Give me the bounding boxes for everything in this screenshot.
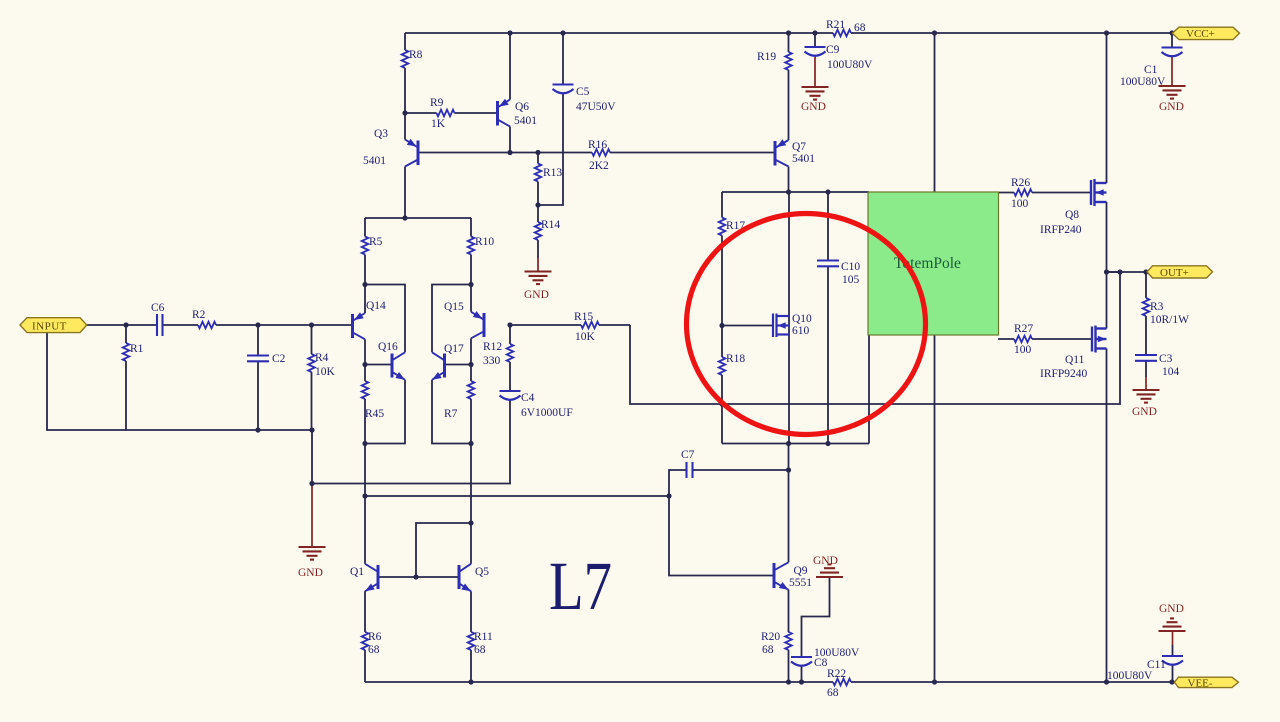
svg-text:68: 68 <box>762 644 774 656</box>
wire input row R2 to Q14 <box>216 324 353 326</box>
transistor Q8 arrow <box>1096 189 1104 195</box>
port OUT+ flag <box>1147 266 1213 279</box>
svg-text:Q7: Q7 <box>792 141 806 153</box>
resistor R1 <box>123 343 130 361</box>
junction dot R12 top <box>507 322 512 327</box>
svg-text:GND: GND <box>298 567 323 579</box>
capacitor C2 <box>247 356 269 362</box>
wire bottom rail left of R22 <box>365 681 833 683</box>
wire right column to Q5 <box>470 444 472 564</box>
svg-text:100: 100 <box>1014 344 1032 356</box>
svg-text:104: 104 <box>1162 366 1180 378</box>
junction dots input bottom rail <box>255 427 260 432</box>
wire R1 chain <box>125 325 127 430</box>
svg-text:5401: 5401 <box>514 115 537 127</box>
transistor Q1 arrow <box>363 583 375 594</box>
capacitor C3 <box>1135 355 1157 361</box>
wire top rail right of R21 <box>851 32 1173 34</box>
wire Q5 diode link <box>416 523 471 577</box>
ground below C1 <box>1159 86 1186 99</box>
svg-text:VEE-: VEE- <box>1188 677 1213 689</box>
svg-text:IRFP240: IRFP240 <box>1040 224 1082 236</box>
svg-text:C6: C6 <box>151 302 165 314</box>
resistor R22 <box>833 679 851 686</box>
wire Q1 Q5 base row <box>378 576 459 578</box>
resistor R27 <box>1014 336 1032 343</box>
wire Q9 emitter to R20 <box>788 590 790 682</box>
wire Q3 collector vertical <box>404 167 406 219</box>
svg-text:68: 68 <box>368 644 380 656</box>
resistor R7 <box>468 381 475 399</box>
svg-text:100U80V: 100U80V <box>1120 76 1166 88</box>
svg-text:5401: 5401 <box>792 153 815 165</box>
resistor R4 <box>308 354 315 372</box>
junction dots y152 rail <box>507 150 512 155</box>
wire Q1 emitter to R6 <box>364 591 366 682</box>
wire OUT node link <box>1107 271 1121 273</box>
resistor R14 <box>535 222 542 240</box>
svg-text:R3: R3 <box>1150 301 1164 313</box>
svg-text:R4: R4 <box>315 352 329 364</box>
resistor R10 <box>468 237 475 255</box>
ground below R14 <box>525 272 552 285</box>
svg-text:Q14: Q14 <box>366 300 386 312</box>
transistor Q14 <box>353 313 366 339</box>
wire R10 chain <box>470 218 472 285</box>
power VEE- flag <box>1174 677 1238 689</box>
svg-text:R21: R21 <box>826 19 845 31</box>
svg-text:VCC+: VCC+ <box>1186 28 1215 40</box>
svg-text:Q9: Q9 <box>794 565 808 577</box>
svg-text:GND: GND <box>524 289 549 301</box>
resistor R13 <box>535 164 542 182</box>
wire Q3 emitter vertical <box>404 113 406 140</box>
svg-text:5551: 5551 <box>789 577 812 589</box>
svg-text:1K: 1K <box>431 118 446 130</box>
svg-text:GND: GND <box>1159 101 1184 113</box>
junction dots box left edge <box>719 323 724 328</box>
capacitor C4 <box>500 391 521 400</box>
svg-text:R1: R1 <box>130 343 144 355</box>
wire C1 stem top <box>1171 33 1173 48</box>
wire R26 row <box>998 192 1091 194</box>
svg-text:Q3: Q3 <box>374 128 388 140</box>
capacitor C1 <box>1162 48 1183 57</box>
wire R9 row <box>405 112 498 114</box>
wire R16 to Q7 base <box>610 152 775 154</box>
wire totem box left chain R17 R18 <box>721 192 723 444</box>
junction dot R9 node <box>402 110 407 115</box>
wire Q6 collector vertical <box>509 127 511 153</box>
capacitor C10 <box>817 261 839 267</box>
wire maroon stem below C9 <box>814 55 816 87</box>
wire totem box bottom edge <box>722 443 869 445</box>
wire totem box top edge <box>722 191 869 193</box>
junction dot Q1 Q5 base <box>413 574 418 579</box>
wire C7 left loop <box>669 470 774 576</box>
svg-text:47U50V: 47U50V <box>576 101 616 113</box>
wire Q14 emitter link <box>365 285 405 353</box>
junction dots block bottom <box>362 441 367 446</box>
wire Q11 drain vertical from OUT <box>1106 272 1108 329</box>
svg-text:INPUT: INPUT <box>32 321 67 333</box>
ground above C11 inverted <box>1159 618 1186 631</box>
svg-text:610: 610 <box>792 325 810 337</box>
junction dot C7 node left <box>666 493 671 498</box>
wire Q15 collector to Q17 base node <box>470 338 472 364</box>
svg-text:Q11: Q11 <box>1065 354 1085 366</box>
resistor R19 <box>785 52 792 70</box>
svg-text:100: 100 <box>1011 198 1029 210</box>
svg-text:C4: C4 <box>521 392 535 404</box>
capacitor C6 <box>157 314 163 336</box>
svg-text:100U80V: 100U80V <box>827 59 873 71</box>
wire Q7 collector vertical <box>788 167 790 193</box>
transistor Q1 <box>365 564 378 592</box>
transistor Q8 mosfet <box>1091 179 1107 206</box>
wire OUT row <box>1107 271 1149 273</box>
svg-text:Q15: Q15 <box>444 301 464 313</box>
resistor R17 <box>719 218 726 236</box>
svg-text:R13: R13 <box>543 167 562 179</box>
junction dots emitter nodes <box>362 282 367 287</box>
transistor Q15 arrow <box>473 311 485 322</box>
svg-text:100U80V: 100U80V <box>1107 670 1153 682</box>
wire input flag drop <box>47 333 312 431</box>
wire Q8 source vertical to OUT <box>1106 202 1108 272</box>
wire R7 chain <box>470 365 472 444</box>
ground below C3 <box>1133 390 1160 403</box>
wire R5 chain <box>364 218 366 285</box>
wire bottom rail right of R22 <box>851 681 1175 683</box>
transistor Q11 mosfet <box>1092 326 1107 353</box>
svg-text:2K2: 2K2 <box>589 160 609 172</box>
svg-text:R11: R11 <box>474 631 493 643</box>
wire R19 chain <box>788 33 790 140</box>
wire C2 stem <box>257 325 259 430</box>
wire maroon stem below C3 <box>1145 377 1147 390</box>
junction dots totem box bottom <box>786 441 791 446</box>
resistor R21 <box>833 30 851 37</box>
svg-text:R27: R27 <box>1014 323 1033 335</box>
wire top rail left of R21 <box>405 32 833 34</box>
svg-text:R15: R15 <box>574 311 593 323</box>
transistor Q11 arrow <box>1098 336 1106 342</box>
svg-text:Q17: Q17 <box>444 343 464 355</box>
resistor R5 <box>362 237 369 255</box>
svg-text:C7: C7 <box>681 449 695 461</box>
wire Q15 emitter link <box>432 285 471 353</box>
wire C5 stem top <box>562 33 564 85</box>
svg-text:C10: C10 <box>841 261 860 273</box>
svg-text:C8: C8 <box>814 657 828 669</box>
resistor R9 <box>437 110 455 117</box>
junction dot feedback tap <box>362 493 367 498</box>
port INPUT flag <box>20 318 87 333</box>
wire maroon stem below R14 <box>537 258 539 272</box>
svg-text:R20: R20 <box>761 631 780 643</box>
capacitor C8 <box>791 657 812 666</box>
svg-text:L7: L7 <box>549 548 612 624</box>
wire base rail y152 Q3 to R16 <box>418 152 592 154</box>
transistor Q10 mosfet <box>773 314 789 338</box>
wire C7 right <box>693 469 789 471</box>
resistor R26 <box>1014 189 1032 196</box>
wire Q14 collector to Q16 base node <box>364 339 366 364</box>
svg-text:R6: R6 <box>368 631 382 643</box>
svg-text:10K: 10K <box>315 366 336 378</box>
wire Q17 emitter drop <box>432 380 471 444</box>
transistor Q9 arrow <box>779 582 791 593</box>
wire Q5 emitter to R11 <box>470 591 472 682</box>
svg-text:R45: R45 <box>365 408 384 420</box>
svg-text:Q16: Q16 <box>378 341 398 353</box>
svg-text:R2: R2 <box>192 309 206 321</box>
junction dots OUT row <box>1104 269 1109 274</box>
wire left column to Q1 <box>364 444 366 564</box>
wire Q11 source vertical to VEE rail <box>1106 349 1108 683</box>
transistor Q3 <box>405 140 418 167</box>
junction dot block feed <box>402 215 407 220</box>
wire Q16 emitter drop <box>365 380 405 444</box>
wire R14 top lead <box>537 205 539 222</box>
wire C3 stem bottom <box>1145 362 1147 378</box>
svg-text:10K: 10K <box>575 331 596 343</box>
wire C11 stem <box>1172 645 1174 682</box>
junction dot gnd tap x312 <box>309 481 314 486</box>
transistor Q5 <box>459 564 471 592</box>
svg-text:C5: C5 <box>576 86 590 98</box>
capacitor C5 <box>553 85 574 94</box>
svg-text:10R/1W: 10R/1W <box>1150 314 1189 326</box>
wire maroon stem gnd x312 <box>311 484 313 547</box>
resistor R12 <box>507 344 514 362</box>
svg-text:C9: C9 <box>826 44 840 56</box>
wire R8 chain vertical <box>404 33 406 113</box>
svg-text:105: 105 <box>842 274 860 286</box>
svg-text:C3: C3 <box>1159 353 1173 365</box>
transistor Q5 arrow <box>461 583 473 594</box>
wire mid vertical x934 <box>934 33 936 682</box>
resistor R3 <box>1143 298 1150 316</box>
transistor Q6 <box>498 100 511 127</box>
svg-text:R14: R14 <box>541 219 560 231</box>
ground x312 input network <box>299 547 326 560</box>
transistor Q9 <box>774 562 789 590</box>
capacitor C9 <box>805 47 826 56</box>
wire C8 stem top run <box>802 577 830 657</box>
wire C8 stem bottom <box>801 665 803 682</box>
svg-text:R8: R8 <box>409 49 423 61</box>
junction dots input row <box>123 322 128 327</box>
wire R4 chain <box>311 325 313 430</box>
svg-text:R10: R10 <box>475 236 494 248</box>
wire C10 chain <box>827 192 829 444</box>
svg-text:OUT+: OUT+ <box>1160 267 1189 279</box>
junction dot C7 right <box>786 467 791 472</box>
wire Q17 base <box>445 364 472 366</box>
resistor R2 <box>198 322 216 329</box>
resistor R11 <box>468 632 475 650</box>
wire feedback tap row y496 <box>365 495 669 497</box>
svg-text:R19: R19 <box>757 51 776 63</box>
wire R45 chain <box>364 365 366 444</box>
svg-text:68: 68 <box>854 22 866 34</box>
svg-text:68: 68 <box>474 644 486 656</box>
svg-text:R12: R12 <box>483 341 502 353</box>
resistor R18 <box>719 357 726 375</box>
wire R27 row <box>998 338 1092 340</box>
wire ground drop x312 <box>311 430 313 484</box>
svg-text:R18: R18 <box>726 353 745 365</box>
svg-text:Q8: Q8 <box>1065 209 1079 221</box>
totem pole green box <box>868 192 999 335</box>
transistor Q7 arrow <box>775 139 787 150</box>
transistor Q17 <box>432 352 445 380</box>
wire output return long line <box>630 272 1120 404</box>
svg-text:R5: R5 <box>369 236 383 248</box>
power VCC+ flag <box>1172 27 1239 40</box>
annotation red circle <box>687 214 926 435</box>
ground below C9 <box>802 87 829 100</box>
transistor Q3 arrow <box>407 139 419 150</box>
junction dots top rail <box>507 30 512 35</box>
svg-text:Q6: Q6 <box>515 101 529 113</box>
wire Q6 emitter vertical <box>509 33 511 100</box>
svg-text:Q10: Q10 <box>792 313 812 325</box>
capacitor C7 <box>687 462 693 478</box>
wire C5 stem bottom to R13 node <box>538 94 563 206</box>
ground above C8 inverted <box>816 564 843 577</box>
wire mid block top rail <box>365 217 471 219</box>
resistor R15 <box>581 322 599 329</box>
svg-text:GND: GND <box>813 555 838 567</box>
junction dot R13 bottom <box>535 202 540 207</box>
wire Q16 base <box>365 364 392 366</box>
svg-text:GND: GND <box>801 101 826 113</box>
svg-text:330: 330 <box>483 355 501 367</box>
wire Q10 gate row <box>722 325 773 327</box>
transistor Q6 arrow <box>497 99 509 110</box>
wire C9 stem top <box>814 33 816 47</box>
wire maroon stem gnd above C11 <box>1172 631 1174 645</box>
junction dots totem box top <box>786 189 791 194</box>
transistor Q14 arrow <box>352 312 364 323</box>
transistor Q16 <box>392 352 405 380</box>
resistor R20 <box>785 632 792 650</box>
resistor R8 <box>402 50 409 68</box>
svg-text:5401: 5401 <box>363 155 386 167</box>
svg-text:R22: R22 <box>827 668 846 680</box>
wire Q8 drain vertical <box>1106 33 1108 183</box>
wire Q10 drain source vertical <box>788 192 790 444</box>
wire R15 row <box>510 324 630 326</box>
junction dots bottom rail <box>468 679 473 684</box>
wire maroon stem below C1 <box>1171 56 1173 86</box>
wire R12 chain <box>509 325 511 391</box>
transistor Q15 <box>471 312 484 339</box>
svg-text:C1: C1 <box>1144 64 1158 76</box>
svg-text:6V1000UF: 6V1000UF <box>521 407 573 419</box>
svg-text:R9: R9 <box>430 97 444 109</box>
wire R13 chain <box>537 153 539 206</box>
transistor Q17 arrow <box>430 372 442 383</box>
resistor R6 <box>362 632 369 650</box>
svg-text:C2: C2 <box>272 353 286 365</box>
svg-text:GND: GND <box>1132 406 1157 418</box>
capacitor C11 <box>1162 656 1183 665</box>
resistor R45 <box>362 381 369 399</box>
svg-text:68: 68 <box>827 687 839 699</box>
wire input row flag to R2 <box>87 324 198 326</box>
wire C4 return line <box>312 400 510 484</box>
resistor R16 <box>592 149 610 156</box>
wire totem box right edge <box>868 192 870 444</box>
transistor Q7 <box>775 140 789 167</box>
svg-text:IRFP9240: IRFP9240 <box>1040 368 1088 380</box>
svg-text:R7: R7 <box>444 408 458 420</box>
svg-text:Q5: Q5 <box>475 566 489 578</box>
svg-text:Q1: Q1 <box>350 566 364 578</box>
junction dots base nodes <box>362 362 367 367</box>
junction dot Q5 collector <box>468 520 473 525</box>
svg-text:R26: R26 <box>1011 177 1030 189</box>
svg-text:R16: R16 <box>588 139 607 151</box>
wire R3 chain <box>1145 272 1147 355</box>
transistor Q10 arrow <box>778 322 786 328</box>
svg-text:GND: GND <box>1159 603 1184 615</box>
wire R14 bottom lead <box>537 240 539 258</box>
transistor Q16 arrow <box>395 372 407 383</box>
wire Q9 collector vertical <box>788 444 790 563</box>
